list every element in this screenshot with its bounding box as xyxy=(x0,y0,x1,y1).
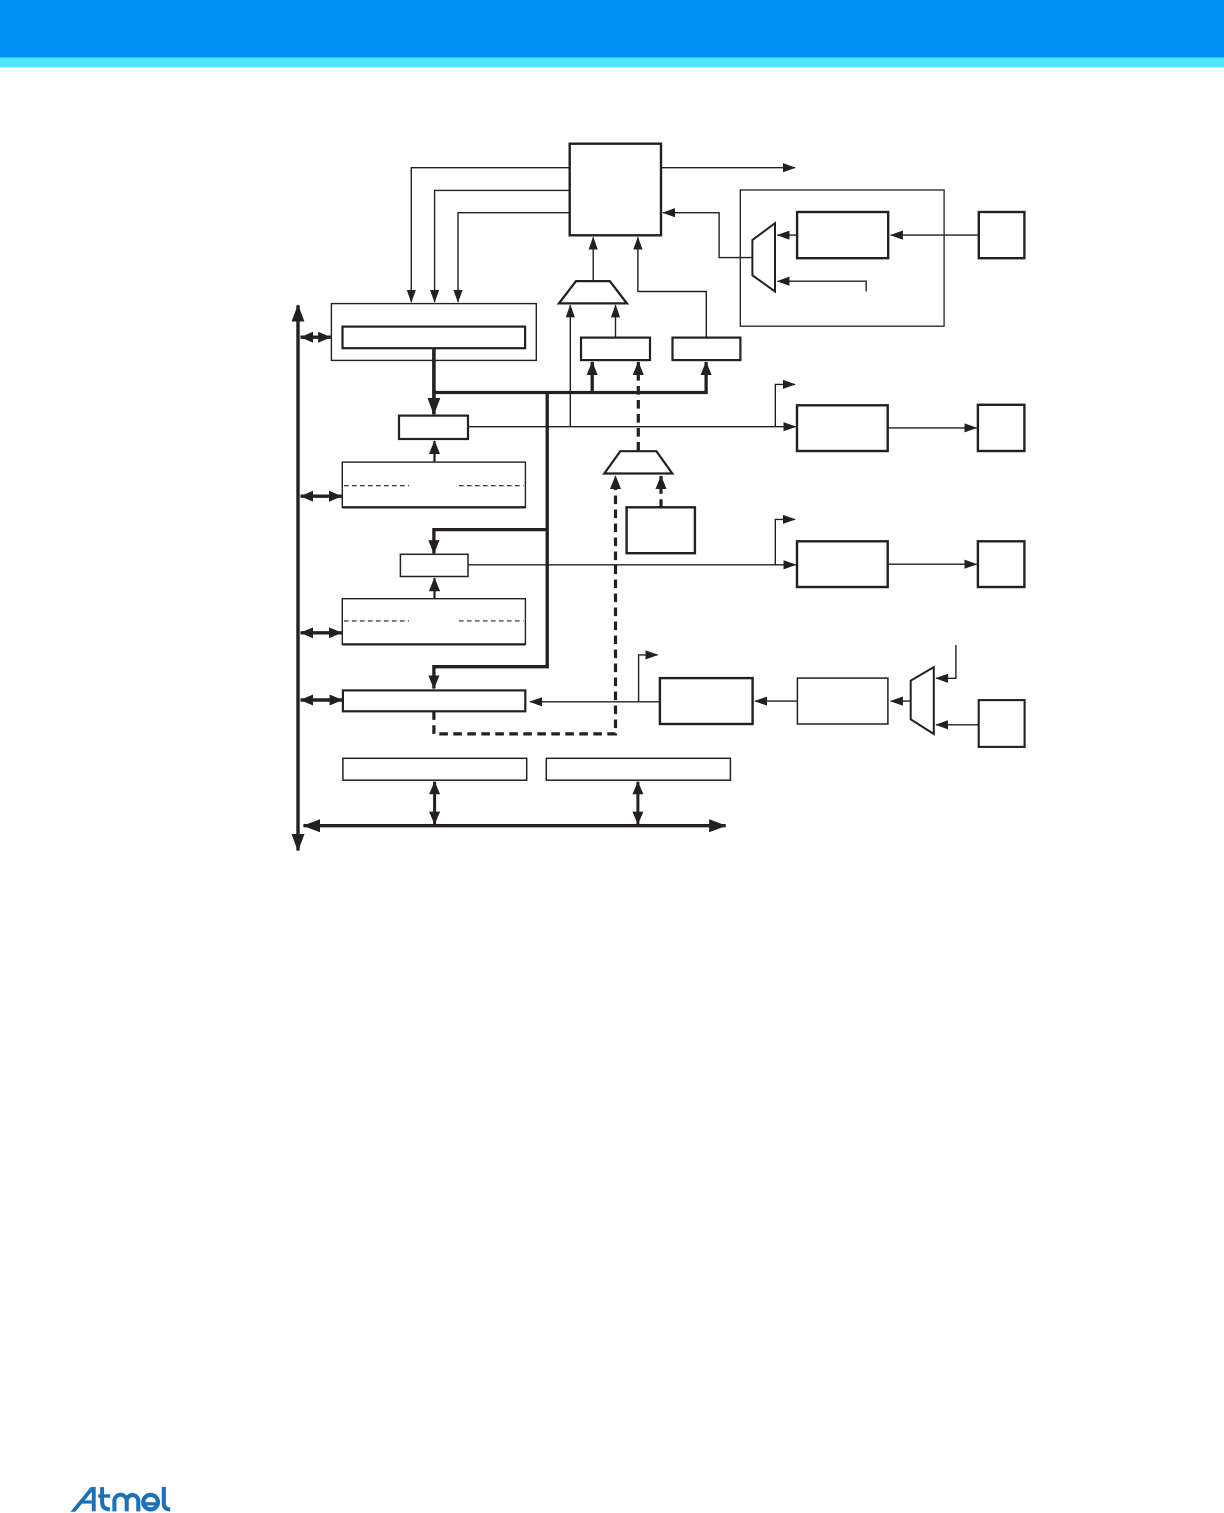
wire: Edge Detector to clock mux xyxy=(778,234,798,236)
page header bar xyxy=(0,0,1224,58)
wire: ICRn value (dashed) into TOP-source mux xyxy=(434,476,616,734)
wire: BOTTOM comparator output to Control Logic xyxy=(638,237,706,337)
wire: count (Control Logic to TCNTn) xyxy=(411,168,569,302)
wire: data bus to OCRnB (bidirectional) xyxy=(301,631,342,634)
wire: Waveform Generation B to OCnB pin xyxy=(888,563,977,565)
register: Timer/Counter (outer box) xyxy=(331,304,536,361)
block: Waveform Generation A xyxy=(797,405,888,451)
wire: capture signal into ICRn xyxy=(530,701,660,703)
wire: Waveform Generation A to OCnA pin xyxy=(888,427,977,429)
wire: TOP comparator output into TOP mux right input xyxy=(615,305,617,337)
comparator: = (OCRnA compare) xyxy=(399,416,468,439)
wire: TCCRnA to data bus (bidirectional) xyxy=(433,782,436,825)
register: OCRnA with buffer xyxy=(342,462,525,507)
mux: clock source select xyxy=(752,223,775,291)
mux: input capture source select xyxy=(911,667,934,734)
wire: TCNTn value (bold) down to comparator A xyxy=(432,348,436,414)
wire: data bus to OCRnA (bidirectional) xyxy=(301,495,342,498)
wire: OCnB (Int.Req.) xyxy=(775,519,795,564)
wire: clear (Control Logic to TCNTn) xyxy=(435,190,570,302)
block: Clock Select (outer group box) xyxy=(740,190,944,326)
wire: Edge Detector to Noise Canceler xyxy=(755,700,797,702)
block: Waveform Generation B xyxy=(797,541,888,587)
wire: TOP value (dashed) from TOP-source mux up to TOP comparator xyxy=(637,362,640,451)
wire: ACO (Analog Comparator output) into capture mux xyxy=(936,645,956,678)
register: OCRnB with buffer xyxy=(342,599,525,645)
divider: OCRnB buffer boundary (dashed) xyxy=(344,620,409,622)
wire: OCRnA to comparator A xyxy=(433,441,435,462)
pin OCnB xyxy=(978,541,1025,587)
block: Edge Detector (clock select) xyxy=(797,212,888,258)
wire: ICPn pin into capture mux xyxy=(936,724,979,726)
wire: OCnB compare match to Waveform Generation B xyxy=(468,564,796,566)
wire: OCRnA compare into TOP mux left input xyxy=(569,305,571,427)
wire: TCNTn value bold branch down (to channel B and ICRn) xyxy=(434,393,547,689)
pin ICPn xyxy=(979,700,1025,747)
wire: data bus to TCNTn (bidirectional) xyxy=(301,336,331,339)
wire: Tn pin to Edge Detector xyxy=(891,234,979,236)
wire: data bus to ICRn (bidirectional) xyxy=(301,698,343,701)
wire: internal data bus (bottom horizontal) xyxy=(304,824,726,827)
block: Noise Canceler xyxy=(660,678,753,724)
register: TCCRnB (control register B) xyxy=(546,758,730,780)
wire: ICFn (Int.Req.) xyxy=(639,655,658,702)
pin Tn (external clock pin) xyxy=(979,212,1025,258)
block: Fixed TOP values xyxy=(627,507,695,553)
wire: TOP mux output to Control Logic xyxy=(592,237,594,281)
comparator: = (TOP compare) xyxy=(581,338,650,361)
wire: fixed TOP values (dashed) into TOP-source mux xyxy=(659,476,662,507)
wire: TCCRnB to data bus (bidirectional) xyxy=(636,782,639,825)
comparator: = 0 (BOTTOM compare) xyxy=(673,338,741,361)
wire: TCNTn value bold branch up to TOP comparator xyxy=(591,362,594,393)
divider: OCRnA buffer boundary (dashed) xyxy=(344,485,409,487)
wire: clkI/O from prescaler to clock mux xyxy=(778,281,867,291)
wire: OCnA compare match to Waveform Generation A xyxy=(468,426,796,428)
block: Control Logic xyxy=(570,144,661,236)
wire: clkTn (clock mux to Control Logic) xyxy=(663,213,752,258)
register: TCNTn (inner register) xyxy=(343,327,526,349)
register: TCCRnA (control register A) xyxy=(343,758,527,780)
wire: capture mux to Edge Detector xyxy=(891,700,911,702)
wire: OCRnB to comparator B xyxy=(433,578,435,599)
wire: direction (Control Logic to TCNTn) xyxy=(458,213,570,302)
DATA BUS (left vertical bus) xyxy=(296,305,299,850)
wire: TOVn (Int.Req.) output xyxy=(661,167,795,169)
wire: TCNTn value bold horizontal run xyxy=(434,362,706,393)
wire: TCNTn value bold branch to comparator B xyxy=(434,530,547,554)
comparator: = (OCRnB compare) xyxy=(400,554,468,576)
wire: OCnA (Int.Req.) xyxy=(775,384,795,426)
header accent strip xyxy=(0,58,1224,68)
mux: TOP source select xyxy=(604,451,672,473)
pin OCnA xyxy=(978,405,1025,451)
logo: Atmel xyxy=(71,1487,96,1512)
mux: TOP select under Control Logic xyxy=(559,281,627,303)
block: Edge Detector (input capture) xyxy=(797,678,888,724)
register: ICRn (Input Capture Register) xyxy=(343,690,525,711)
